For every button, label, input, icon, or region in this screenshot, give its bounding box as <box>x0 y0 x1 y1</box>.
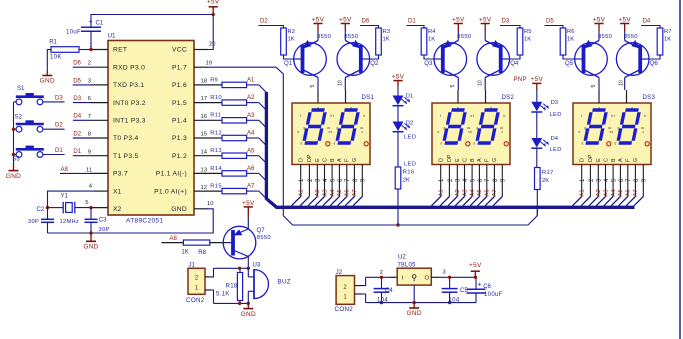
svg-text:1K: 1K <box>288 37 295 43</box>
svg-text:+5V: +5V <box>207 0 220 5</box>
wire Q6 collector to display <box>624 78 626 91</box>
transistor Q3 8550 PNP <box>424 34 472 77</box>
pushbutton S3 <box>12 146 44 163</box>
svg-text:PNP: PNP <box>514 77 527 83</box>
svg-text:A5: A5 <box>247 148 255 154</box>
svg-text:6: 6 <box>88 96 91 102</box>
capacitor C4 104 <box>374 277 394 303</box>
wire D2 to R16 <box>397 132 399 167</box>
crystal Y1 12MHz <box>48 194 92 225</box>
junction C5 top <box>448 276 451 279</box>
capacitor C1 10uF <box>66 19 104 36</box>
svg-text:INT1 P3.3: INT1 P3.3 <box>113 118 146 125</box>
svg-text:20: 20 <box>209 41 216 47</box>
wire regulator output rail <box>431 276 476 278</box>
resistor R5 1K / net D3 <box>500 18 531 59</box>
svg-text:R17: R17 <box>542 170 554 176</box>
svg-text:5: 5 <box>85 200 88 206</box>
svg-text:D2: D2 <box>55 123 63 129</box>
svg-text:+5V: +5V <box>392 74 405 81</box>
junction Q7 collector / buzzer <box>247 267 250 270</box>
svg-text:DS2: DS2 <box>502 95 515 101</box>
svg-text:D1: D1 <box>73 149 81 155</box>
svg-text:1K: 1K <box>524 37 531 43</box>
svg-text:R11: R11 <box>210 113 221 119</box>
wire net D5 to U1 <box>73 78 108 85</box>
wire J2 pin1 to bottom rail <box>355 294 366 303</box>
pushbutton S1 <box>16 86 44 105</box>
svg-text:A3: A3 <box>247 113 255 119</box>
buzzer U3 BUZ <box>248 262 291 303</box>
svg-text:C2: C2 <box>37 207 45 213</box>
svg-text:CON2: CON2 <box>186 297 205 304</box>
wire A6 to bus <box>259 173 267 181</box>
svg-text:2K: 2K <box>403 178 410 184</box>
svg-text:P1.6: P1.6 <box>172 82 187 89</box>
svg-text:D5: D5 <box>546 18 554 24</box>
svg-text:TXD P3.1: TXD P3.1 <box>113 82 144 89</box>
ground (regulator) <box>407 303 422 318</box>
svg-text:P1.7: P1.7 <box>172 64 187 71</box>
svg-text:1K: 1K <box>567 37 574 43</box>
connector J1 CON2 <box>186 262 205 304</box>
svg-text:R10: R10 <box>210 95 222 101</box>
U1 left pin numbers <box>85 42 93 206</box>
power +5V (Q3 emitter) <box>452 16 465 40</box>
junction buzzer bottom / GND <box>247 302 250 305</box>
resistor R15 / net A7 <box>194 184 259 194</box>
svg-text:2K: 2K <box>542 178 549 184</box>
svg-text:C3: C3 <box>99 218 107 224</box>
svg-text:LED: LED <box>404 135 416 141</box>
junction C1/R1/RST <box>89 48 92 51</box>
wire net A8 to R8 <box>161 236 183 243</box>
svg-text:R13: R13 <box>210 148 222 154</box>
wire A1 to bus <box>259 85 267 93</box>
svg-text:VCC: VCC <box>172 47 187 54</box>
svg-text:+: + <box>478 281 482 288</box>
svg-text:S1: S1 <box>17 86 25 92</box>
junction U2 ground <box>413 301 416 304</box>
wire R16 to P1.7 line <box>397 189 399 225</box>
wire C1 bottom <box>90 31 92 49</box>
7-segment display DS1 <box>291 80 374 206</box>
svg-text:GND: GND <box>40 78 55 85</box>
svg-text:P1.1 AI(-): P1.1 AI(-) <box>156 171 187 178</box>
svg-text:13: 13 <box>201 167 207 173</box>
svg-text:GND: GND <box>83 244 98 251</box>
wire X2 pin 5 <box>91 207 108 209</box>
ground (R1) <box>40 71 55 85</box>
IC U1 AT89C2051 <box>108 33 195 225</box>
svg-text:R14: R14 <box>210 166 222 172</box>
resistor R4 1K / net D1 <box>407 18 443 59</box>
svg-text:D6: D6 <box>73 61 81 67</box>
svg-text:P1.0 AI(+): P1.0 AI(+) <box>154 188 187 195</box>
resistor R7 1K / net D4 <box>640 18 671 59</box>
svg-text:BUZ: BUZ <box>278 278 291 285</box>
svg-text:DS1: DS1 <box>362 95 375 101</box>
svg-text:P1.5: P1.5 <box>172 100 187 107</box>
svg-text:Q3: Q3 <box>424 61 433 67</box>
svg-text:Q2: Q2 <box>370 61 379 67</box>
svg-text:D1: D1 <box>55 148 63 154</box>
transistor Q5 8550 PNP <box>565 34 613 77</box>
svg-text:INT0 P3.2: INT0 P3.2 <box>113 100 146 107</box>
svg-text:LED: LED <box>404 162 416 168</box>
regulator U2 78L05 <box>380 254 446 285</box>
power +5V (Q6 emitter) <box>618 16 631 40</box>
svg-text:10: 10 <box>207 201 214 207</box>
LED D3 <box>531 100 561 118</box>
svg-text:R6: R6 <box>567 29 574 35</box>
resistor R6 1K / net D5 <box>545 18 584 59</box>
svg-text:D3: D3 <box>551 100 558 106</box>
svg-text:R4: R4 <box>428 29 436 35</box>
wire net P1.7 pin 19 to LED resistors <box>194 67 537 225</box>
wire A3 to bus <box>259 120 267 128</box>
svg-text:19: 19 <box>206 61 212 67</box>
svg-text:R3: R3 <box>383 29 390 35</box>
svg-text:P1.2: P1.2 <box>172 153 187 160</box>
junction S3 tap <box>12 153 15 156</box>
svg-text:Q5: Q5 <box>565 61 574 67</box>
svg-text:S2: S2 <box>15 115 23 121</box>
svg-text:LED: LED <box>550 147 562 153</box>
wire supply bottom rail <box>366 302 476 304</box>
svg-text:GND: GND <box>171 206 187 213</box>
svg-text:30P: 30P <box>28 219 39 225</box>
svg-text:X1: X1 <box>113 188 121 195</box>
svg-text:D3: D3 <box>73 96 81 102</box>
svg-text:+5V: +5V <box>469 262 482 269</box>
svg-text:T1 P3.5: T1 P3.5 <box>113 153 139 160</box>
svg-text:7: 7 <box>88 114 91 120</box>
svg-text:D3: D3 <box>55 95 63 101</box>
resistor R16 2K <box>395 167 414 189</box>
svg-text:R5: R5 <box>524 29 531 35</box>
wire J2 pin2 to rail <box>355 277 366 285</box>
resistor R9 / net A1 <box>194 77 259 87</box>
svg-text:Q4: Q4 <box>510 61 519 67</box>
svg-text:2: 2 <box>380 270 383 276</box>
svg-text:X2: X2 <box>113 206 121 213</box>
svg-text:15: 15 <box>201 132 207 138</box>
wire net D4 to U1 <box>73 114 108 121</box>
wire regulator input rail <box>366 276 398 278</box>
svg-text:10K: 10K <box>50 55 62 61</box>
junction C4 top <box>380 276 383 279</box>
wire J1 pin2 to top rail <box>205 268 214 277</box>
svg-text:1K: 1K <box>664 37 671 43</box>
svg-text:CON2: CON2 <box>335 306 354 313</box>
svg-text:3: 3 <box>442 270 445 276</box>
junction R16 bottom <box>396 223 399 226</box>
pushbutton S2 <box>15 115 44 132</box>
resistor R8 1K <box>181 240 209 256</box>
svg-text:2: 2 <box>88 61 91 67</box>
svg-text:8550: 8550 <box>624 34 639 40</box>
svg-text:12: 12 <box>201 185 207 191</box>
svg-text:R7: R7 <box>664 29 671 35</box>
junction R18 bottom <box>238 302 241 305</box>
svg-text:D2: D2 <box>260 18 268 24</box>
wire D1 to D2 <box>397 106 399 122</box>
power +5V (Q4 emitter) <box>479 16 492 40</box>
resistor R14 / net A6 <box>194 166 259 176</box>
svg-text:C4: C4 <box>385 288 393 294</box>
junction X2/C3 <box>89 206 92 209</box>
svg-text:DS3: DS3 <box>643 95 656 101</box>
7-segment display DS2 <box>431 80 514 206</box>
wire R17 down across bus <box>536 190 538 216</box>
svg-text:5.1K: 5.1K <box>216 292 230 298</box>
svg-text:+5V: +5V <box>531 76 544 83</box>
transistor Q1 8550 PNP <box>284 34 332 77</box>
connector J2 CON2 <box>335 270 355 313</box>
svg-text:78L05: 78L05 <box>398 262 417 268</box>
svg-text:1K: 1K <box>428 37 435 43</box>
svg-text:T0 P3.4: T0 P3.4 <box>113 135 139 142</box>
svg-text:12MHz: 12MHz <box>60 219 80 225</box>
wire X1 pin 4 <box>48 191 109 201</box>
junction +5V rail <box>212 13 215 16</box>
wire Q3 collector to display <box>457 78 459 91</box>
svg-text:18: 18 <box>201 78 207 84</box>
svg-text:J2: J2 <box>336 270 343 276</box>
svg-text:C1: C1 <box>96 21 104 27</box>
svg-text:+5V: +5V <box>593 16 606 23</box>
transistor Q7 8550 PNP <box>223 226 271 259</box>
svg-text:GND: GND <box>241 311 256 318</box>
ground (buzzer) <box>241 303 256 317</box>
wire A7 to bus <box>259 191 267 199</box>
junction C5 bottom <box>448 301 451 304</box>
junction S2 tap <box>12 128 15 131</box>
svg-text:P1.4: P1.4 <box>172 118 187 125</box>
capacitor C2 30P <box>28 201 54 233</box>
power +5V (Q2 emitter) <box>339 16 352 40</box>
wire net D2 to U1 <box>73 131 108 138</box>
power +5V (regulator output) <box>469 262 482 277</box>
svg-text:AT89C2051: AT89C2051 <box>126 218 163 225</box>
svg-text:Q1: Q1 <box>284 61 293 67</box>
svg-text:11: 11 <box>86 167 92 173</box>
wire ground rail (crystal / pin 10) <box>48 209 214 233</box>
capacitor C3 30P <box>85 208 110 234</box>
resistor R17 2K <box>535 168 554 190</box>
power +5V (LED column 2) <box>531 76 544 102</box>
wire Q5 collector to display <box>598 78 600 91</box>
ground (crystal) <box>83 233 98 251</box>
svg-text:+5V: +5V <box>618 16 631 23</box>
junction C3/ground rail <box>89 231 92 234</box>
wire net D3 to U1 <box>73 96 108 103</box>
wire A5 to bus <box>259 156 267 164</box>
svg-text:10uF: 10uF <box>66 29 81 35</box>
U1 right pin numbers <box>201 41 217 207</box>
wire buzzer bottom rail <box>214 302 249 304</box>
svg-text:O: O <box>425 275 430 281</box>
wire button common vertical <box>13 102 15 163</box>
svg-text:D5: D5 <box>73 78 81 84</box>
svg-text:U3: U3 <box>253 262 261 268</box>
power +5V (Q7 emitter) <box>242 200 255 229</box>
svg-text:R8: R8 <box>198 250 206 256</box>
svg-text:GND: GND <box>407 310 422 317</box>
wire S1 to net D3 <box>14 95 65 102</box>
wire R8 to Q7 base <box>210 242 227 244</box>
wire Q1 collector to display <box>317 78 319 91</box>
svg-text:R12: R12 <box>210 130 222 136</box>
svg-text:R2: R2 <box>288 29 295 35</box>
wire U2 ground <box>413 285 415 303</box>
svg-text:A8: A8 <box>61 167 69 173</box>
svg-text:8550: 8550 <box>257 235 272 241</box>
svg-text:LED: LED <box>550 112 562 118</box>
svg-text:C6: C6 <box>483 284 491 290</box>
svg-text:+5V: +5V <box>312 16 325 23</box>
svg-text:U2: U2 <box>398 254 406 260</box>
svg-text:A8: A8 <box>170 236 178 242</box>
power +5V (Q5 emitter) <box>593 16 606 40</box>
wire Q2 collector to display <box>344 78 346 91</box>
ground (buttons) <box>6 163 21 180</box>
svg-text:GND: GND <box>6 173 21 180</box>
wire J1 pin1 to bottom rail <box>205 290 214 303</box>
svg-text:D6: D6 <box>362 18 370 24</box>
resistor R18 5.1K <box>216 268 243 303</box>
svg-text:+5V: +5V <box>479 16 492 23</box>
wire A4 to bus <box>259 138 267 146</box>
svg-text:RXD P3.0: RXD P3.0 <box>113 64 145 71</box>
wire +5V to VCC pin 20 <box>194 15 213 50</box>
svg-text:D3: D3 <box>502 18 510 24</box>
svg-text:17: 17 <box>201 96 207 102</box>
svg-text:D2: D2 <box>73 131 81 137</box>
svg-text:D1: D1 <box>406 94 413 100</box>
svg-text:9: 9 <box>88 150 91 156</box>
svg-text:3: 3 <box>88 78 91 84</box>
wire Q4 collector to display <box>484 78 486 91</box>
transistor Q6 8550 PNP <box>616 34 658 77</box>
svg-text:8550: 8550 <box>598 34 613 40</box>
power +5V (Q1 emitter) <box>312 16 325 40</box>
LED D2 <box>393 120 417 167</box>
svg-text:A2: A2 <box>247 95 255 101</box>
svg-text:8550: 8550 <box>457 34 472 40</box>
wire D4 to R17 <box>536 148 538 167</box>
svg-text:A1: A1 <box>247 78 255 84</box>
svg-text:A4: A4 <box>247 131 255 137</box>
svg-text:+5V: +5V <box>242 200 255 207</box>
svg-text:R15: R15 <box>210 184 222 190</box>
resistor R10 / net A2 <box>194 95 259 105</box>
resistor R11 / net A3 <box>194 113 259 123</box>
svg-text:D4: D4 <box>551 136 559 142</box>
svg-text:R18: R18 <box>226 283 238 289</box>
svg-text:RET: RET <box>113 47 127 54</box>
svg-text:14: 14 <box>201 150 208 156</box>
svg-text:16: 16 <box>201 114 207 120</box>
svg-text:P3.7: P3.7 <box>113 171 128 178</box>
svg-text:+5V: +5V <box>452 16 465 23</box>
svg-text:D4: D4 <box>643 18 651 24</box>
LED D1 <box>393 94 417 141</box>
junction +5V/C6 <box>474 276 477 279</box>
power +5V (VCC) <box>207 0 220 15</box>
svg-text:D2: D2 <box>406 120 413 126</box>
junction crystal left <box>46 206 49 209</box>
junction C4 bottom <box>380 301 383 304</box>
svg-text:R1: R1 <box>49 39 57 45</box>
svg-text:U1: U1 <box>108 33 117 40</box>
transistor Q2 8550 PNP <box>337 34 379 77</box>
svg-text:30P: 30P <box>99 227 110 233</box>
power +5V (LED column 1) <box>392 74 405 96</box>
svg-text:A6: A6 <box>247 166 255 172</box>
svg-text:8: 8 <box>88 132 91 138</box>
svg-text:P1.3: P1.3 <box>172 135 187 142</box>
7-segment display DS3 <box>572 80 655 206</box>
svg-text:1K: 1K <box>383 37 390 43</box>
wire net A8 to U1 <box>60 167 108 174</box>
svg-text:8550: 8550 <box>317 34 332 40</box>
svg-text:100uF: 100uF <box>484 292 503 298</box>
wire R1 left to GND <box>47 50 51 72</box>
svg-text:8550: 8550 <box>344 34 359 40</box>
wire C1 top to +5V rail <box>91 15 213 28</box>
wire A2 to bus <box>259 103 267 111</box>
resistor R3 1K / net D6 <box>360 18 390 59</box>
svg-text:Q7: Q7 <box>257 228 266 234</box>
wire net D6 to U1 <box>73 61 108 68</box>
resistor R12 / net A4 <box>194 130 259 140</box>
wire S2 to net D2 <box>14 123 65 130</box>
svg-text:A7: A7 <box>247 184 255 190</box>
wire R1 right / RST node <box>79 49 108 51</box>
resistor R2 1K / net D2 <box>259 18 303 59</box>
transistor Q4 8550 PNP <box>477 40 519 78</box>
svg-text:R16: R16 <box>403 170 415 176</box>
capacitor C6 100uF <box>467 277 503 302</box>
LED D4 <box>531 136 561 153</box>
resistor R1 10K <box>49 39 79 60</box>
wire Q7 collector <box>247 257 249 269</box>
wire S3 to net D1 <box>14 148 65 155</box>
svg-text:D1: D1 <box>408 18 416 24</box>
svg-text:D4: D4 <box>73 114 81 120</box>
wire net D1 to U1 <box>73 149 108 156</box>
wire buzzer top rail <box>214 267 249 269</box>
svg-text:+5V: +5V <box>339 16 352 23</box>
bus (segment lines) <box>266 92 634 207</box>
svg-text:R9: R9 <box>210 77 217 83</box>
svg-text:Q6: Q6 <box>650 61 659 67</box>
svg-text:1K: 1K <box>181 250 188 256</box>
capacitor C5 104 <box>442 277 469 303</box>
svg-text:Y1: Y1 <box>61 194 69 200</box>
resistor R13 / net A5 <box>194 148 259 158</box>
wire D3 to D4 <box>536 112 538 138</box>
junction R18 top <box>238 267 241 270</box>
svg-text:J1: J1 <box>189 262 196 268</box>
